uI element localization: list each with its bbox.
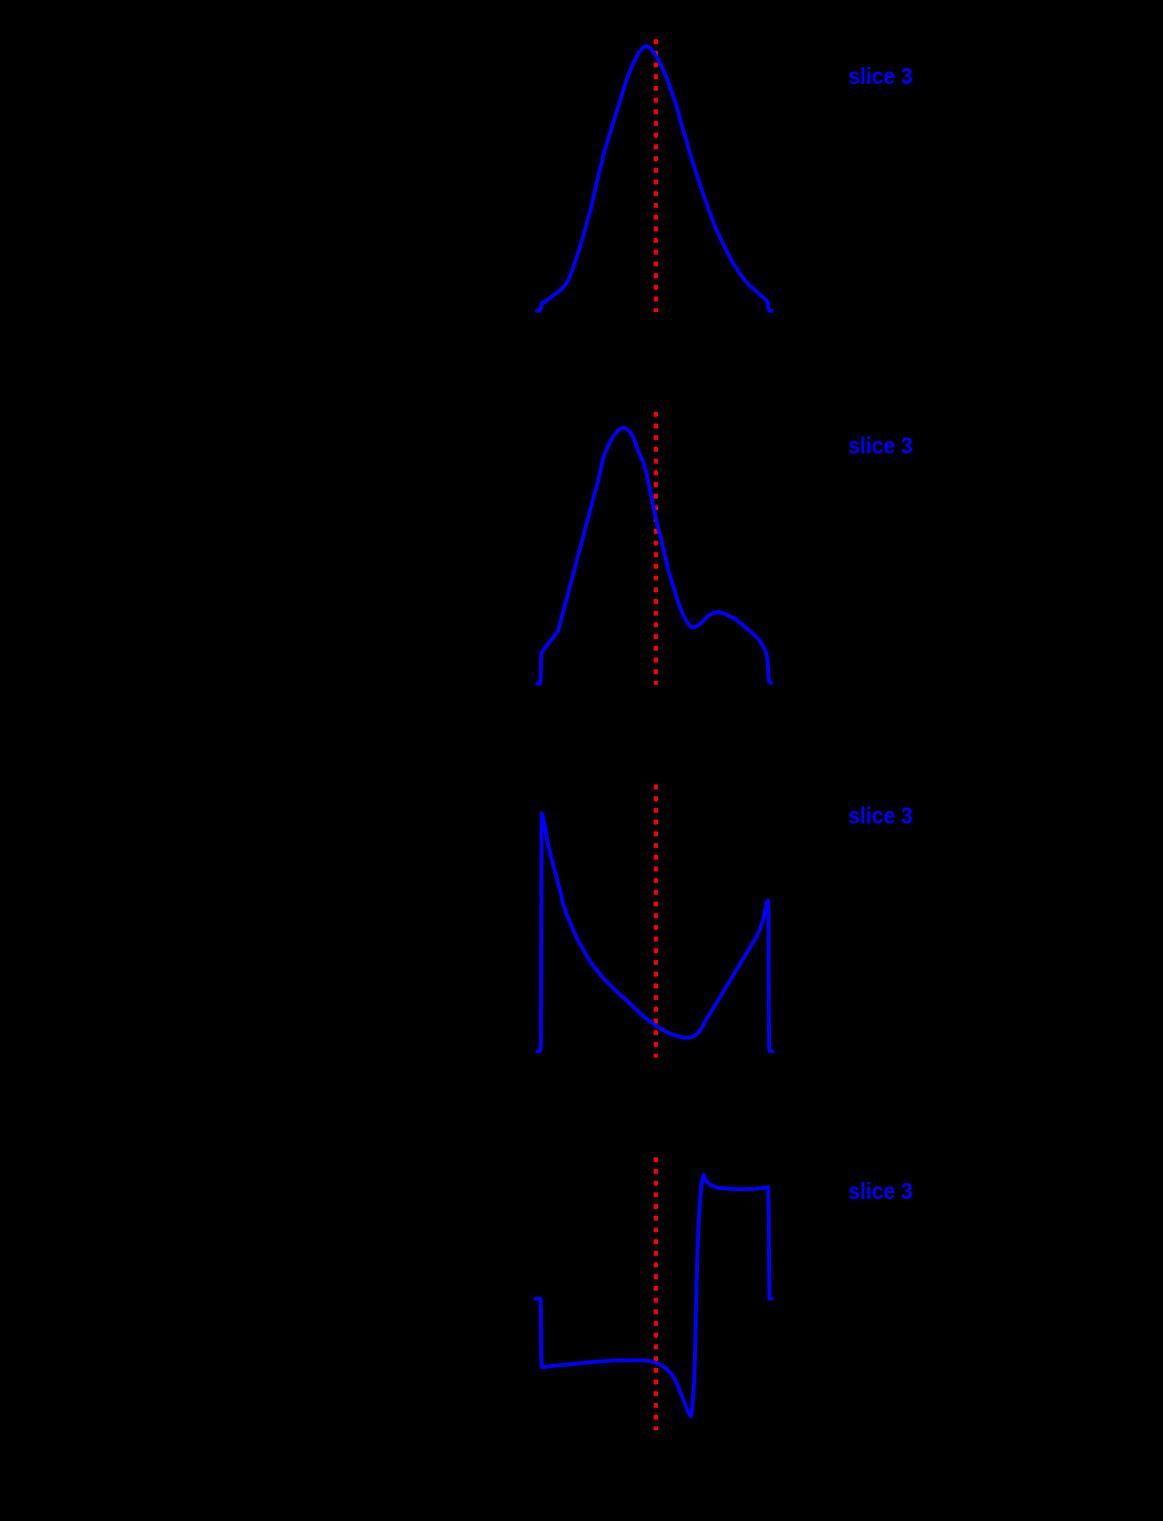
panel 1 red dotted threshold line [654,39,658,312]
panel 3 red dotted threshold line [654,785,658,1058]
panel 3 blue U-shaped profile with edge spikes curve [538,813,772,1051]
panel 2 blue bimodal density profile curve [538,428,772,684]
panel 4 red dotted threshold line [654,1157,658,1430]
panel 1 blue gaussian density profile curve [537,46,772,311]
svg-text:slice 3: slice 3 [848,1178,913,1204]
panel 4 blue step/edge profile curve [536,1175,772,1416]
svg-text:slice 3: slice 3 [848,432,913,458]
panel 2 red dotted threshold line [654,412,658,685]
svg-text:slice 3: slice 3 [848,803,913,829]
svg-text:slice 3: slice 3 [848,63,913,89]
